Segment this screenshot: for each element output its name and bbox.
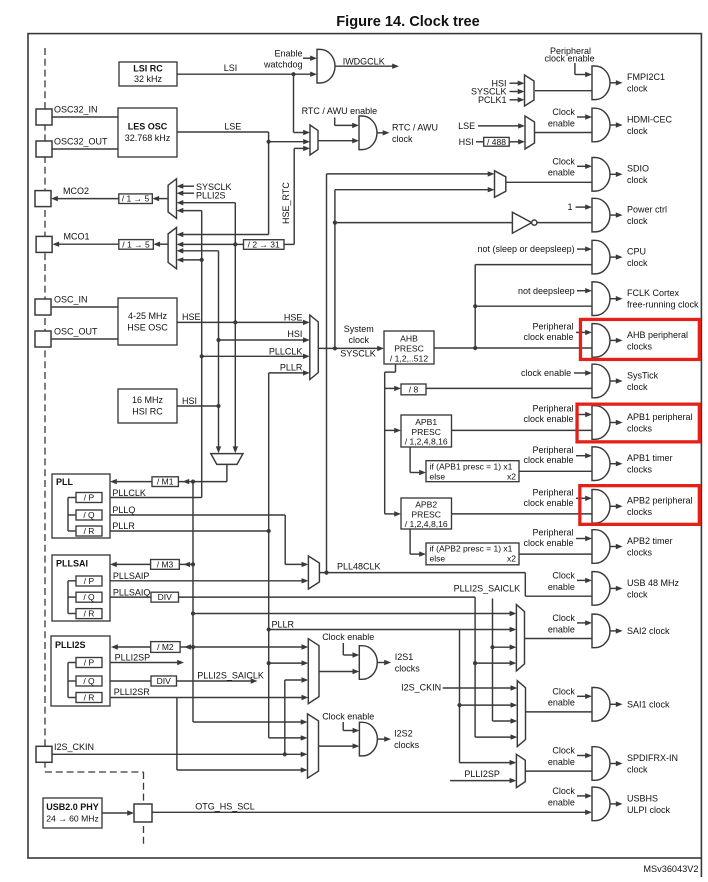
svg-text:Power ctrl: Power ctrl	[627, 205, 667, 215]
svg-text:PLLSAIQ: PLLSAIQ	[113, 588, 151, 598]
svg-text:Clock: Clock	[552, 107, 575, 117]
svg-text:else: else	[430, 471, 446, 481]
svg-text:PLLI2SP: PLLI2SP	[464, 769, 500, 779]
svg-text:DIV: DIV	[158, 592, 173, 602]
svg-text:I2S_CKIN: I2S_CKIN	[54, 742, 94, 752]
svg-text:Clock enable: Clock enable	[322, 712, 374, 722]
svg-text:PLLSAIP: PLLSAIP	[113, 571, 150, 581]
svg-text:USBHS: USBHS	[627, 793, 658, 803]
svg-text:HSE_RTC: HSE_RTC	[281, 182, 291, 224]
svg-text:/ 1,2,..512: / 1,2,..512	[390, 353, 428, 363]
svg-text:/ Q: / Q	[83, 676, 95, 686]
svg-text:24 → 60 MHz: 24 → 60 MHz	[46, 814, 99, 824]
svg-text:RTC / AWU enable: RTC / AWU enable	[302, 106, 378, 116]
svg-text:PLLI2S: PLLI2S	[55, 640, 86, 650]
svg-text:APB1 timer: APB1 timer	[627, 453, 673, 463]
svg-text:x2: x2	[507, 471, 516, 481]
svg-text:OSC32_OUT: OSC32_OUT	[54, 137, 108, 147]
svg-text:PRESC: PRESC	[411, 427, 441, 437]
svg-text:PLLI2S_SAICLK: PLLI2S_SAICLK	[197, 671, 264, 681]
svg-text:HSI: HSI	[287, 329, 302, 339]
svg-text:I2S1: I2S1	[395, 652, 414, 662]
svg-text:HSI RC: HSI RC	[132, 407, 163, 417]
svg-text:I2S2: I2S2	[394, 729, 413, 739]
svg-text:OSC32_IN: OSC32_IN	[54, 105, 98, 115]
svg-text:clock enable: clock enable	[545, 54, 595, 64]
svg-text:LSE: LSE	[458, 121, 475, 131]
svg-text:/ M2: / M2	[157, 642, 174, 652]
svg-text:/ R: / R	[84, 609, 95, 619]
svg-text:DIV: DIV	[157, 676, 172, 686]
svg-text:clocks: clocks	[394, 740, 420, 750]
svg-text:MCO1: MCO1	[64, 232, 90, 242]
svg-text:enable: enable	[548, 757, 575, 767]
svg-text:SYSCLK: SYSCLK	[340, 349, 376, 359]
svg-text:SPDIFRX-IN: SPDIFRX-IN	[627, 753, 678, 763]
svg-text:Clock: Clock	[552, 746, 575, 756]
svg-text:Peripheral: Peripheral	[532, 487, 573, 497]
svg-text:Clock: Clock	[552, 570, 575, 580]
svg-text:enable: enable	[548, 797, 575, 807]
svg-text:not (sleep or deepsleep): not (sleep or deepsleep)	[478, 244, 575, 254]
svg-text:ULPI clock: ULPI clock	[627, 805, 671, 815]
svg-text:OSC_OUT: OSC_OUT	[54, 327, 98, 337]
svg-text:x2: x2	[507, 554, 516, 564]
svg-text:clock: clock	[392, 134, 413, 144]
svg-text:enable: enable	[548, 698, 575, 708]
svg-text:clocks: clocks	[627, 341, 653, 351]
svg-text:Clock: Clock	[552, 686, 575, 696]
svg-text:if (APB2 presc = 1) x1: if (APB2 presc = 1) x1	[430, 544, 513, 554]
svg-text:LES OSC: LES OSC	[128, 122, 168, 132]
svg-text:PLLI2S_SAICLK: PLLI2S_SAICLK	[454, 584, 521, 594]
svg-text:Clock: Clock	[552, 613, 575, 623]
svg-text:clock: clock	[627, 382, 648, 392]
svg-text:/ 1,2,4,8,16: / 1,2,4,8,16	[405, 437, 448, 447]
svg-text:clocks: clocks	[627, 507, 653, 517]
svg-text:System: System	[344, 324, 374, 334]
svg-text:APB2 timer: APB2 timer	[627, 536, 673, 546]
svg-text:clock: clock	[627, 175, 648, 185]
svg-text:HSI: HSI	[459, 137, 474, 147]
svg-text:Clock: Clock	[552, 156, 575, 166]
svg-text:enable: enable	[548, 118, 575, 128]
svg-text:/ 8: / 8	[409, 384, 419, 394]
svg-text:PCLK1: PCLK1	[478, 95, 507, 105]
svg-text:PLL48CLK: PLL48CLK	[337, 562, 381, 572]
svg-text:clock enable: clock enable	[523, 498, 573, 508]
svg-text:not deepsleep: not deepsleep	[518, 286, 575, 296]
svg-text:HSI: HSI	[182, 396, 197, 406]
svg-text:32 kHz: 32 kHz	[134, 74, 163, 84]
svg-text:LSE: LSE	[224, 122, 241, 132]
svg-text:PLLQ: PLLQ	[112, 505, 135, 515]
svg-text:4-25 MHz: 4-25 MHz	[128, 311, 168, 321]
svg-text:PRESC: PRESC	[394, 344, 424, 354]
svg-text:PLLR: PLLR	[272, 620, 295, 630]
svg-text:/ P: / P	[84, 658, 95, 668]
svg-text:FCLK Cortex: FCLK Cortex	[627, 288, 680, 298]
svg-text:SAI2 clock: SAI2 clock	[627, 626, 670, 636]
svg-text:enable: enable	[548, 168, 575, 178]
svg-text:/ R: / R	[84, 526, 95, 536]
svg-text:16 MHz: 16 MHz	[132, 395, 164, 405]
svg-text:clock: clock	[627, 216, 648, 226]
svg-text:free-running clock: free-running clock	[627, 300, 699, 310]
svg-text:else: else	[430, 554, 446, 564]
svg-text:APB2 peripheral: APB2 peripheral	[627, 496, 693, 506]
svg-text:MCO2: MCO2	[63, 186, 89, 196]
svg-text:/ 1,2,4,8,16: / 1,2,4,8,16	[405, 519, 448, 529]
svg-text:PLLSAI: PLLSAI	[56, 559, 88, 569]
svg-text:clock enable: clock enable	[523, 414, 573, 424]
svg-text:USB 48 MHz: USB 48 MHz	[627, 578, 680, 588]
svg-text:PLLI2SP: PLLI2SP	[115, 653, 151, 663]
svg-text:PLLR: PLLR	[112, 521, 135, 531]
svg-text:enable: enable	[548, 624, 575, 634]
svg-text:clock enable: clock enable	[523, 455, 573, 465]
svg-text:clock: clock	[627, 764, 648, 774]
svg-text:PLLI2S: PLLI2S	[196, 191, 226, 201]
svg-text:Enable: Enable	[274, 49, 302, 59]
svg-text:HSE OSC: HSE OSC	[127, 323, 168, 333]
svg-text:APB1: APB1	[415, 417, 437, 427]
svg-text:Figure 14. Clock tree: Figure 14. Clock tree	[336, 14, 480, 30]
svg-text:SysTick: SysTick	[627, 370, 659, 380]
svg-text:CPU: CPU	[627, 247, 646, 257]
svg-text:OTG_HS_SCL: OTG_HS_SCL	[195, 802, 255, 812]
svg-text:Peripheral: Peripheral	[532, 528, 573, 538]
svg-text:enable: enable	[548, 582, 575, 592]
svg-text:PLLCLK: PLLCLK	[112, 488, 146, 498]
svg-text:Peripheral: Peripheral	[532, 322, 573, 332]
svg-text:I2S_CKIN: I2S_CKIN	[401, 683, 441, 693]
svg-text:FMPI2C1: FMPI2C1	[627, 72, 665, 82]
svg-text:/ M1: / M1	[157, 477, 174, 487]
svg-text:HDMI-CEC: HDMI-CEC	[627, 114, 672, 124]
svg-text:clock enable: clock enable	[523, 332, 573, 342]
svg-text:clocks: clocks	[627, 423, 653, 433]
svg-text:USB2.0 PHY: USB2.0 PHY	[46, 802, 99, 812]
svg-text:/ 1 → 5: / 1 → 5	[122, 194, 150, 204]
svg-text:LSI RC: LSI RC	[133, 64, 163, 74]
svg-text:Clock: Clock	[552, 786, 575, 796]
svg-text:AHB peripheral: AHB peripheral	[627, 330, 688, 340]
svg-text:MSv36043V2: MSv36043V2	[643, 864, 698, 874]
svg-text:Peripheral: Peripheral	[532, 445, 573, 455]
svg-text:clocks: clocks	[395, 663, 421, 673]
svg-text:/ Q: / Q	[83, 510, 95, 520]
svg-text:/ 1 → 5: / 1 → 5	[122, 239, 150, 249]
svg-text:PLLCLK: PLLCLK	[269, 346, 303, 356]
svg-text:clock: clock	[627, 126, 648, 136]
svg-text:32.768 kHz: 32.768 kHz	[125, 133, 171, 143]
svg-text:Clock enable: Clock enable	[322, 632, 374, 642]
svg-text:clocks: clocks	[627, 465, 653, 475]
svg-text:clock enable: clock enable	[523, 538, 573, 548]
svg-text:PLL: PLL	[56, 477, 74, 487]
svg-text:APB1 peripheral: APB1 peripheral	[627, 412, 693, 422]
svg-text:/ 488: / 488	[487, 137, 506, 147]
svg-text:IWDGCLK: IWDGCLK	[343, 57, 385, 67]
svg-text:AHB: AHB	[400, 334, 418, 344]
svg-text:HSE: HSE	[284, 313, 303, 323]
svg-text:clock enable: clock enable	[521, 368, 571, 378]
svg-text:watchdog: watchdog	[263, 59, 303, 69]
svg-text:RTC / AWU: RTC / AWU	[392, 123, 438, 133]
svg-text:/ Q: / Q	[83, 592, 95, 602]
svg-text:Peripheral: Peripheral	[532, 404, 573, 414]
svg-text:/ P: / P	[84, 576, 95, 586]
svg-text:/ M3: / M3	[157, 559, 174, 569]
svg-text:SAI1 clock: SAI1 clock	[627, 700, 670, 710]
svg-text:OSC_IN: OSC_IN	[54, 295, 88, 305]
svg-text:clock: clock	[627, 258, 648, 268]
svg-text:if (APB1 presc = 1) x1: if (APB1 presc = 1) x1	[430, 461, 513, 471]
svg-text:APB2: APB2	[415, 500, 437, 510]
svg-text:clock: clock	[627, 589, 648, 599]
svg-text:clock: clock	[627, 84, 648, 94]
svg-text:HSE: HSE	[182, 312, 201, 322]
svg-text:/ R: / R	[84, 693, 95, 703]
svg-text:SDIO: SDIO	[627, 164, 649, 174]
svg-text:LSI: LSI	[224, 63, 238, 73]
svg-text:/ P: / P	[84, 493, 95, 503]
svg-text:PLLI2SR: PLLI2SR	[114, 687, 151, 697]
svg-text:/ 2 → 31: / 2 → 31	[248, 239, 280, 249]
svg-text:PLLR: PLLR	[280, 363, 303, 373]
svg-text:1: 1	[567, 202, 572, 212]
svg-text:clock: clock	[349, 335, 370, 345]
svg-text:clocks: clocks	[627, 547, 653, 557]
svg-text:PRESC: PRESC	[411, 510, 441, 520]
